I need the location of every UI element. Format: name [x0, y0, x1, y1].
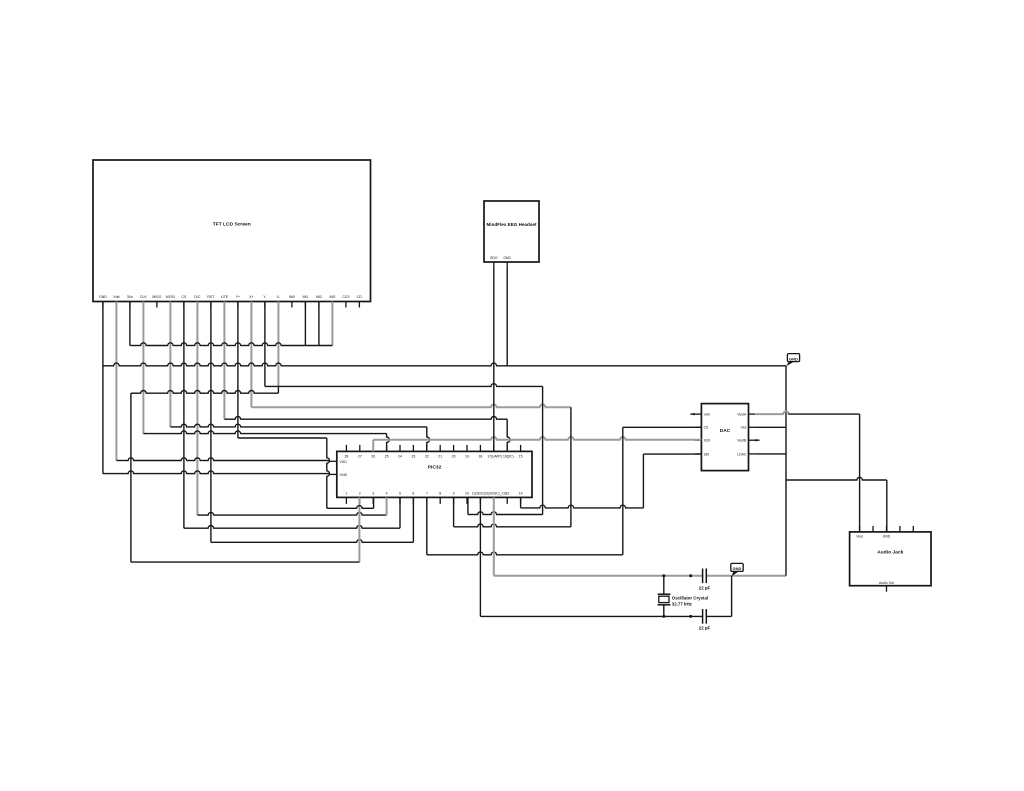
svg-text:Audio Out: Audio Out [879, 581, 894, 585]
svg-text:28: 28 [344, 454, 348, 458]
wire riser x543 (Y- net) [542, 386, 544, 514]
MindFlex pin SDO [490, 256, 498, 268]
wire DAC SDI row [643, 453, 701, 455]
svg-text:CS: CS [181, 295, 187, 299]
wire Y+ row [238, 437, 327, 439]
PIC32 top pin 18 [478, 445, 482, 459]
LCD pin D/C [194, 295, 201, 308]
Audio Jack pin 4 (stub) [899, 526, 901, 532]
PIC32 top pin 22 [425, 445, 429, 459]
DAC right pin LDAC [737, 452, 755, 456]
oscillator crystal Y1 32.77 kHz [658, 576, 671, 617]
svg-text:GND: GND [733, 566, 742, 571]
Audio Jack pin GND [883, 526, 891, 538]
svg-text:VoutB: VoutB [737, 439, 747, 443]
wire riser PIC pin 9 [453, 497, 455, 526]
wire crystal bottom row [480, 615, 731, 617]
PIC32 top pins 17(UART) 16(DC) [487, 445, 513, 459]
capacitor C1 22 pF [703, 569, 707, 584]
svg-text:19: 19 [465, 454, 469, 458]
LCD pin GND [99, 295, 107, 308]
PIC32 top pin 27 [358, 445, 362, 459]
LCD pin Y- [263, 295, 267, 308]
wire LCD IM3 vertical [331, 302, 333, 346]
svg-text:26: 26 [371, 454, 375, 458]
LCD pin CS [181, 295, 187, 308]
svg-text:21: 21 [438, 454, 442, 458]
LCD pin CLK [140, 295, 147, 308]
PIC32 left pin VDD [330, 460, 347, 464]
wire GND row y480 to Audio Jack [786, 477, 887, 480]
wire MindFlex GND down to GND bus [506, 268, 508, 366]
TFT LCD Screen module [93, 160, 371, 302]
svg-text:22 pF: 22 pF [699, 585, 711, 590]
label Oscillator Crystal [672, 595, 708, 606]
DAC left pin SCK [695, 439, 711, 443]
PIC32 bottom pin 2 [359, 491, 361, 504]
svg-text:SDO: SDO [490, 256, 498, 260]
label C1 22 pF [699, 585, 711, 590]
wire CS row to PIC pin5 [184, 526, 400, 529]
wire LCD IM1 vertical [304, 302, 306, 346]
wire DAC LDAC to GND rail [755, 453, 786, 455]
svg-text:VoutA: VoutA [737, 413, 747, 417]
svg-text:Oscillator Crystal: Oscillator Crystal [672, 595, 708, 600]
svg-text:3Vo: 3Vo [127, 295, 133, 299]
wire riser PIC pin 4 [386, 497, 388, 515]
wire DAC SDI riser x643 [642, 454, 644, 508]
wire riser PIC pin 3 [373, 497, 375, 508]
wire LCD RST vertical [210, 302, 212, 543]
svg-text:4: 4 [386, 491, 388, 495]
wire PIC pin10 row to touch node [468, 512, 543, 515]
wire LCD X- vertical [277, 302, 279, 387]
svg-text:GND: GND [883, 534, 891, 538]
wire LITE riser to PIC pin 16 [507, 419, 510, 451]
ground flag GND (oscillator) [731, 563, 743, 576]
wire VDD row to PIC [116, 458, 329, 461]
svg-text:LDAC: LDAC [737, 452, 747, 456]
svg-text:Y+: Y+ [236, 295, 240, 299]
wire Y-/X- row to node [265, 384, 543, 387]
wire PIC pin2 riser [358, 497, 360, 562]
PIC32 bottom pin 4 [386, 491, 388, 504]
svg-text:VDD: VDD [340, 460, 348, 464]
wire Audio Jack GND riser [886, 480, 888, 532]
PIC32 top pin 20 [452, 445, 456, 459]
PIC32 top pin 15 [519, 445, 523, 459]
LCD pin IM2 [316, 295, 322, 308]
svg-text:CD: CD [357, 295, 363, 299]
LCD pin Y+ [236, 295, 240, 308]
svg-text:14: 14 [519, 491, 523, 495]
wire MindFlex SDO to PIC pin17 [493, 268, 495, 451]
wire crystal top row (grey) [494, 575, 786, 577]
PIC32 top pin 24 [398, 445, 402, 459]
svg-text:3: 3 [372, 491, 374, 495]
LCD pin CD [357, 295, 363, 308]
svg-text:IM2: IM2 [316, 295, 322, 299]
svg-text:25: 25 [385, 454, 389, 458]
wire LCD CS vertical [183, 302, 185, 529]
wire PIC pin3 row [327, 506, 374, 509]
wire LCD MOSI vertical [169, 302, 171, 427]
svg-text:Vout: Vout [856, 534, 863, 538]
wire pin2 row y562 [131, 561, 360, 563]
DAC right pin VoutB [737, 439, 755, 443]
svg-text:IM1: IM1 [302, 295, 308, 299]
svg-text:CCS: CCS [342, 295, 350, 299]
wire LCD LITE vertical [223, 302, 225, 420]
svg-text:CLK: CLK [140, 295, 147, 299]
svg-text:MISO: MISO [152, 295, 161, 299]
wire LCD D/C vertical [196, 302, 198, 516]
wire row y393 to left riser [131, 391, 279, 394]
svg-text:Audio Jack: Audio Jack [877, 550, 903, 556]
svg-text:GND: GND [789, 356, 798, 361]
DAC left pin Vdd [695, 413, 710, 417]
svg-text:IM0: IM0 [289, 295, 295, 299]
LCD pin IM3 [329, 295, 335, 308]
svg-text:CS: CS [704, 426, 709, 430]
svg-text:2: 2 [359, 491, 361, 495]
svg-text:SCK: SCK [704, 439, 712, 443]
microcontroller PIC32 U1 [337, 451, 532, 497]
PIC32 bottom pin 1 [345, 491, 347, 504]
label C2 22 pF [699, 626, 711, 631]
LCD pin CCS [342, 295, 350, 308]
wire riser x571 (X+ net) [570, 407, 572, 527]
svg-text:10: 10 [465, 491, 469, 495]
svg-text:Vss: Vss [741, 426, 747, 430]
svg-text:LITE: LITE [221, 295, 229, 299]
PIC32 bottom pin 9 [453, 491, 455, 504]
wire riser PIC pin 5 [399, 497, 401, 528]
PIC32 bottom pin 3 [372, 491, 374, 504]
svg-text:22 pF: 22 pF [699, 626, 711, 631]
LCD pin X- [277, 295, 281, 308]
svg-text:24: 24 [398, 454, 402, 458]
svg-text:MindFlex EEG Headset: MindFlex EEG Headset [486, 222, 537, 227]
wire PIC pin11 riser (SOSC) [479, 497, 481, 616]
PIC32 bottom pin 7 [426, 491, 428, 504]
LCD pin IM1 [302, 295, 308, 308]
DAC right pin Vss [741, 426, 755, 430]
LCD pin RST [207, 295, 215, 308]
PIC32 top pin 21 [438, 445, 442, 459]
svg-text:DAC: DAC [720, 428, 731, 434]
LCD pin 3Vo [127, 295, 133, 308]
wire PIC pin9 row [454, 524, 571, 527]
wire 3.3V bus row (3Vo-IM1-IM2-IM3) [130, 343, 333, 346]
wire X+ row [251, 405, 571, 408]
wire riser to PIC pin 25 [387, 434, 390, 452]
svg-text:23: 23 [411, 454, 415, 458]
wire riser x732 joining rows [731, 576, 733, 617]
wire VoutA row (rail to riser) [788, 413, 859, 415]
wire VoutA riser to Audio Jack [859, 414, 861, 532]
PIC32 bottom pin 8 [439, 491, 441, 504]
svg-text:IM3: IM3 [329, 295, 335, 299]
svg-text:GND: GND [99, 295, 107, 299]
svg-text:22: 22 [425, 454, 429, 458]
Audio Jack pin Vout [856, 526, 863, 538]
wire DAC CS riser x623 [622, 427, 624, 555]
wire LCD X+ vertical [250, 302, 252, 408]
Audio Jack pin 5 (stub) [912, 526, 914, 532]
LCD pin MISO [152, 295, 161, 308]
ground flag GND (top right) [786, 354, 800, 367]
svg-text:11(SDO)12(SOSC)_CS: 11(SDO)12(SOSC)_CS [472, 491, 507, 495]
LCD pin MOSI [166, 295, 175, 308]
svg-text:20: 20 [452, 454, 456, 458]
PIC32 top pin 28 [344, 445, 348, 459]
Audio Jack pin 2 (stub) [872, 526, 874, 532]
wire LCD CLK vertical [142, 302, 144, 434]
svg-text:RST: RST [207, 295, 215, 299]
Audio Jack pin Audio Out [879, 581, 894, 592]
PIC32 bottom pins 11(SOSCI) 12(SOSCO) [472, 491, 507, 504]
svg-text:GND: GND [503, 256, 511, 260]
PIC32 bottom pin 10 [465, 491, 469, 504]
wire X- riser at node [277, 386, 279, 393]
PIC32 left pin GND [330, 473, 348, 477]
wire DAC CS row [623, 426, 702, 428]
svg-text:D/C: D/C [194, 295, 201, 299]
capacitor C2 22 pF [703, 609, 707, 624]
svg-text:5: 5 [399, 491, 401, 495]
PIC32 bottom pin 14 [519, 491, 523, 504]
svg-text:18: 18 [478, 454, 482, 458]
wire Y+ riser x327 [327, 438, 330, 508]
svg-text:15: 15 [519, 454, 523, 458]
svg-text:MOSI: MOSI [166, 295, 175, 299]
wire LCD IM2 vertical [318, 302, 320, 346]
PIC32 top pin 23 [411, 445, 415, 459]
wire PIC pin7 row to DAC CS riser [427, 552, 623, 555]
wire riser PIC pin 14 [520, 497, 522, 508]
svg-text:32.77 kHz: 32.77 kHz [672, 601, 693, 606]
svg-text:X+: X+ [249, 295, 253, 299]
wire riser to PIC pin 22 [427, 427, 430, 452]
svg-text:GND: GND [340, 473, 348, 477]
LCD pin Vdd [113, 295, 119, 308]
wire DAC Vdd stub [690, 413, 695, 415]
wire DAC VoutA row (grey to rail) [755, 411, 789, 414]
Audio Jack J1 [850, 532, 931, 586]
wire RST row to PIC pin6 [211, 540, 414, 543]
wire DAC Vss to GND rail [755, 426, 786, 428]
PIC32 bottom pin 6 [412, 491, 414, 504]
DAC right pin VoutA [737, 413, 755, 417]
wire PIC pin26 to DAC SCK row [373, 437, 701, 451]
wire GND row to PIC [103, 471, 330, 474]
svg-text:TFT LCD Screen: TFT LCD Screen [213, 222, 251, 228]
svg-text:17(UART) 16(DC): 17(UART) 16(DC) [487, 454, 513, 458]
svg-text:PIC32: PIC32 [428, 465, 442, 471]
LCD pin LITE [221, 295, 229, 308]
wire D/C row to PIC pin4 [197, 512, 386, 515]
svg-text:8: 8 [439, 491, 441, 495]
LCD pin X+ [249, 295, 253, 308]
PIC32 bottom pin 5 [399, 491, 401, 504]
DAC left pin CS [695, 426, 709, 430]
wire LCD Y- vertical [264, 302, 266, 387]
svg-text:9: 9 [453, 491, 455, 495]
wire left riser x131 down [130, 393, 132, 562]
MindFlex pin GND [503, 256, 511, 268]
wire PIC pin12 riser (SOSC) [493, 497, 495, 575]
wire CLK row to PIC pin25 [143, 431, 386, 434]
MindFlex EEG Headset module [484, 201, 539, 262]
wire MOSI row to PIC pin22 [170, 424, 427, 427]
DAC U2 (MCP4922) [701, 404, 748, 471]
wire PIC pin14 row [521, 505, 644, 508]
PIC32 top pin 25 [385, 445, 389, 459]
wire riser PIC pin 7 [426, 497, 428, 554]
wire GND bus row to GND flag [103, 363, 786, 366]
svg-text:Vdd: Vdd [704, 413, 710, 417]
wire riser PIC pin 6 [412, 497, 414, 542]
svg-text:27: 27 [358, 454, 362, 458]
wire LCD GND vertical [102, 302, 104, 474]
svg-text:1: 1 [345, 491, 347, 495]
wire riser PIC pin 10 [467, 497, 469, 514]
svg-text:7: 7 [426, 491, 428, 495]
PIC32 top pin 19 [465, 445, 469, 459]
PIC32 top pin 26 [371, 445, 375, 459]
wire LCD Vdd vertical [115, 302, 117, 461]
DAC left pin SDI [695, 452, 709, 456]
junction dots on oscillator rows [662, 574, 692, 618]
LCD pin IM0 [289, 295, 295, 308]
svg-text:6: 6 [412, 491, 414, 495]
wire GND rail vertical x786 [785, 366, 787, 576]
wire DAC VoutB stub [755, 439, 760, 441]
wire LCD 3Vo vertical [129, 302, 131, 346]
svg-text:Vdd: Vdd [113, 295, 119, 299]
wire LITE row to PIC pin16 [224, 417, 507, 420]
PIC32 bottom pin 13 [505, 491, 509, 504]
svg-text:SDI: SDI [704, 452, 710, 456]
wire LCD Y+ vertical [237, 302, 239, 439]
